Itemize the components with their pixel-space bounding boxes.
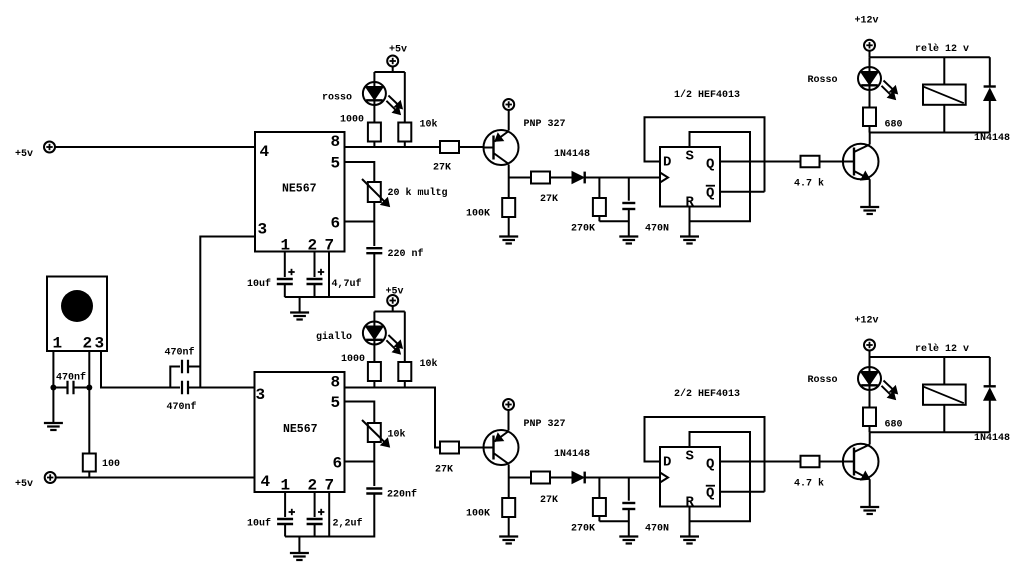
svg-text:680: 680 <box>885 420 903 431</box>
ground (microphone) <box>44 422 63 424</box>
wire +5v to PNP emitter <box>508 110 510 131</box>
wire 2,2uf to bus (bottom) <box>314 524 316 537</box>
svg-text:470nf: 470nf <box>167 401 197 413</box>
ground (top 100K) <box>499 235 518 237</box>
capacitor 470N (bottom) <box>622 478 669 535</box>
ground (top 470N) <box>619 235 638 237</box>
ground (bottom flip-flop R) <box>680 535 699 537</box>
svg-text:D: D <box>663 455 671 471</box>
svg-text:4: 4 <box>260 143 270 161</box>
svg-text:4: 4 <box>261 473 271 491</box>
resistor 1000 (bottom LED) <box>341 354 381 381</box>
wire 100K from collector node <box>508 178 510 199</box>
wire 680 to collector rail (bottom) <box>869 426 871 432</box>
wire mic pin 1 down <box>52 351 54 388</box>
IC NE567 #1 (top tone decoder) <box>255 132 345 255</box>
wire diode to flip-flop clock <box>585 177 660 179</box>
microphone capsule <box>47 277 107 353</box>
wire NE567#2 pin 7 <box>328 492 330 537</box>
wire 100K to ground (bottom) <box>508 517 510 537</box>
svg-text:4,7uf: 4,7uf <box>332 278 362 290</box>
resistor 270K (top) <box>571 178 606 235</box>
wire lower cap to NE567#2 pin 3 <box>188 387 255 389</box>
wire 27K to PNP base <box>459 146 484 148</box>
svg-text:1: 1 <box>281 477 291 495</box>
diode 1N4148 (top relay clamp) <box>974 57 1010 144</box>
wire to LED giallo anode <box>373 312 375 322</box>
svg-text:220 nf: 220 nf <box>388 248 424 260</box>
svg-text:+5v: +5v <box>389 45 407 56</box>
LED giallo (bottom) <box>363 322 403 355</box>
svg-text:Q: Q <box>706 186 714 202</box>
wire collector node to 27K <box>509 177 531 179</box>
wire ground bus (top NE567) <box>285 296 375 298</box>
ground (top NPN emitter) <box>860 206 879 208</box>
capacitor 10uf (bottom) <box>247 509 295 530</box>
wire D input loop (bottom) <box>645 417 765 492</box>
wire 1000 to pin8 line <box>373 381 375 388</box>
wire collector node to 27K (bottom) <box>509 477 531 479</box>
resistor 27K (bottom, base feed) <box>435 442 459 476</box>
wire 4.7k to NPN base <box>820 161 855 163</box>
svg-text:PNP 327: PNP 327 <box>524 119 566 130</box>
svg-text:Q: Q <box>706 486 714 502</box>
svg-text:1: 1 <box>53 335 63 353</box>
svg-text:Rosso: Rosso <box>808 75 838 86</box>
wire 10uf to bus (bottom) <box>284 524 286 537</box>
svg-text:+5v: +5v <box>15 479 33 490</box>
svg-text:7: 7 <box>325 477 335 495</box>
wire NE567#2 pin 8 <box>345 388 441 448</box>
flip-flop 1/2 HEF4013 U2 <box>660 147 720 211</box>
wire D input loop (D to Qbar) <box>645 117 765 192</box>
wire to LED rosso anode <box>373 72 375 82</box>
wire 100K from collector node (bottom) <box>508 478 510 499</box>
svg-text:2/2 HEF4013: 2/2 HEF4013 <box>674 388 740 400</box>
power +5v supply (bottom left) <box>15 472 56 490</box>
wire NE567#1 pin 2 <box>314 252 316 277</box>
wire mic pin 3 down <box>101 351 180 388</box>
svg-text:6: 6 <box>331 215 341 233</box>
svg-text:10k: 10k <box>420 358 438 370</box>
svg-text:6: 6 <box>333 455 343 473</box>
svg-text:27K: 27K <box>435 465 453 476</box>
wire mic pin 2 down <box>88 351 90 454</box>
wire 4,7uf to bus <box>314 284 316 297</box>
svg-text:rosso: rosso <box>322 93 352 104</box>
svg-text:470N: 470N <box>645 524 669 535</box>
wire +5v branch to 10k (bottom) <box>404 312 406 363</box>
svg-text:10k: 10k <box>420 119 438 131</box>
svg-text:1N4148: 1N4148 <box>554 149 590 160</box>
svg-text:2: 2 <box>308 237 318 255</box>
ground (bottom 470N) <box>619 535 638 537</box>
power +5v (bottom PNP emitter) <box>503 399 514 410</box>
svg-text:470nf: 470nf <box>165 347 195 359</box>
wire 220nf to ground bus <box>285 253 375 297</box>
svg-text:2,2uf: 2,2uf <box>333 518 363 530</box>
svg-text:5: 5 <box>331 394 341 412</box>
diode 1N4148 (bottom relay clamp) <box>974 357 1010 444</box>
wire diode to flip-flop clock (bottom) <box>585 477 660 479</box>
wire 220nf to ground bus (bottom) <box>285 494 374 537</box>
svg-text:220nf: 220nf <box>387 489 417 501</box>
wire LED to resistor 1000 <box>373 105 375 123</box>
wire +12v rail (bottom) <box>870 356 990 358</box>
capacitor 4,7uf (top) <box>307 269 362 290</box>
svg-text:100K: 100K <box>466 209 490 220</box>
svg-text:1000: 1000 <box>340 115 364 126</box>
wire rail to LED Rosso <box>869 57 871 67</box>
svg-text:1N4148: 1N4148 <box>974 133 1010 144</box>
wire 1000 to pin8 line <box>373 142 375 148</box>
svg-text:relè 12 v: relè 12 v <box>915 343 969 355</box>
wire NPN collector up (bottom) <box>869 432 871 444</box>
svg-text:27K: 27K <box>540 194 558 205</box>
resistor 27K (bottom, collector) <box>531 472 558 507</box>
wire upper cap to riser <box>188 366 200 368</box>
resistor 680 (bottom) <box>863 408 903 431</box>
wire NE567#1 pin 5 <box>345 162 375 182</box>
svg-text:D: D <box>663 155 671 171</box>
resistor 680 (top) <box>863 108 903 131</box>
wire NE567#1 pin 1 <box>284 252 286 277</box>
power +5v (top PNP emitter) <box>503 99 514 110</box>
resistor 10k (top) <box>398 119 437 142</box>
wire +5v to PNP emitter (bottom) <box>508 410 510 431</box>
wire LED to resistor 1000 <box>373 345 375 363</box>
capacitor 470nf (mic coupling) <box>56 372 86 395</box>
wire bus to ground <box>299 297 301 313</box>
wire +5v to NE567#2 pin 4 <box>56 477 255 479</box>
diode 1N4148 (bottom) <box>554 449 590 483</box>
svg-text:1000: 1000 <box>341 354 365 365</box>
resistor 100 (mic bias) <box>83 454 120 472</box>
svg-text:270K: 270K <box>571 524 595 535</box>
wire pot to pin 6 node (bottom) <box>373 442 375 486</box>
wire rail to LED Rosso (bottom) <box>869 357 871 367</box>
svg-text:2: 2 <box>83 335 93 353</box>
ground (top NE567) <box>290 311 309 313</box>
wire junction to 470nf <box>53 387 67 389</box>
svg-text:8: 8 <box>331 374 341 392</box>
capacitor 10uf (top) <box>247 269 295 290</box>
wire +12v rail (top) <box>870 56 990 58</box>
wire 470N to ground (bottom) <box>628 509 630 537</box>
svg-text:20 k multg: 20 k multg <box>388 187 448 199</box>
ground (bottom NPN emitter) <box>860 506 879 508</box>
relay coil 12v (bottom) <box>923 357 966 432</box>
ground (bottom NE567) <box>290 552 309 554</box>
svg-text:270K: 270K <box>571 224 595 235</box>
LED Rosso (top right) <box>858 67 898 100</box>
resistor 27K (top, collector) <box>531 172 558 206</box>
wire S to R tie loop <box>690 132 751 221</box>
power +5v (top LED branch) <box>387 45 407 67</box>
wire PNP collector down <box>508 165 510 178</box>
wire 27K to diode <box>550 177 572 179</box>
ground (bottom 100K) <box>499 535 518 537</box>
svg-text:giallo: giallo <box>316 331 352 343</box>
wire 100K to ground <box>508 217 510 237</box>
svg-text:Q: Q <box>706 157 714 173</box>
wire S to R tie loop (bottom) <box>690 432 751 521</box>
wire 4.7k to NPN base (bottom) <box>820 461 855 463</box>
resistor 27K (top, base feed) <box>433 141 459 174</box>
svg-text:+12v: +12v <box>855 316 879 327</box>
svg-text:470N: 470N <box>645 224 669 235</box>
svg-text:NE567: NE567 <box>283 423 318 436</box>
wire branch to upper cap <box>170 367 180 388</box>
capacitor 470N (top) <box>622 178 669 235</box>
potentiometer 20 k multg (top) <box>362 179 448 207</box>
wire +5v to NE567#1 pin 4 <box>55 146 255 148</box>
svg-text:1/2 HEF4013: 1/2 HEF4013 <box>674 89 740 101</box>
transistor PNP 327 Q3 (bottom) <box>484 430 519 465</box>
wire +5v branch to 10k <box>404 72 406 123</box>
potentiometer 10k (bottom) <box>362 420 406 447</box>
wire NE567#2 pin 6 <box>345 461 375 463</box>
resistor 4.7 k (top) <box>794 156 824 190</box>
svg-text:680: 680 <box>885 120 903 131</box>
flip-flop 2/2 HEF4013 U4 <box>660 447 720 511</box>
svg-text:PNP 327: PNP 327 <box>524 419 566 430</box>
svg-text:3: 3 <box>95 335 105 353</box>
svg-text:27K: 27K <box>540 495 558 506</box>
wire 10k to pin8 line <box>404 142 406 148</box>
ground (top flip-flop R) <box>680 235 699 237</box>
wire LED to 680 (bottom) <box>869 390 871 408</box>
wire +12v stub <box>869 51 871 57</box>
wire +5v branch split (bottom) <box>392 306 394 312</box>
transistor NPN (top relay driver) <box>843 144 879 180</box>
wire NE567#2 pin 1 <box>284 492 286 517</box>
svg-text:10uf: 10uf <box>247 518 271 530</box>
wire PNP collector down (bottom) <box>508 465 510 478</box>
svg-text:100: 100 <box>102 459 120 470</box>
svg-text:S: S <box>686 449 694 465</box>
wire NPN emitter to ground (bottom) <box>869 479 871 507</box>
svg-text:100K: 100K <box>466 509 490 520</box>
wire NPN collector up <box>869 133 871 145</box>
capacitor 470nf upper (to NE567#1) <box>165 347 195 374</box>
diode 1N4148 (top) <box>554 149 590 183</box>
svg-text:+5v: +5v <box>15 149 33 160</box>
svg-text:relè 12 v: relè 12 v <box>915 43 969 55</box>
wire 27K to diode (bottom) <box>550 477 572 479</box>
wire mic pin1 node to ground <box>52 388 54 423</box>
svg-text:27K: 27K <box>433 163 451 174</box>
wire +5v branch split <box>392 67 394 73</box>
capacitor 220nf (bottom) <box>366 489 417 501</box>
power +5v (bottom LED branch) <box>386 287 404 307</box>
svg-text:1N4148: 1N4148 <box>974 433 1010 444</box>
wire NE567#2 pin 2 <box>314 492 316 517</box>
wire ground bus (bottom NE567) <box>285 536 374 538</box>
svg-text:+12v: +12v <box>855 16 879 27</box>
wire pot to pin 6 node <box>373 202 375 246</box>
svg-text:1N4148: 1N4148 <box>554 449 590 460</box>
relay coil 12v (top) <box>923 57 966 132</box>
wire 270K to ground node <box>598 216 600 221</box>
wire NE567#1 pin 3 <box>200 237 255 388</box>
LED Rosso (bottom right) <box>858 367 898 400</box>
resistor 100K (bottom) <box>466 498 515 520</box>
wire collector rail (bottom) <box>870 431 990 433</box>
wire NE567#1 pin 6 <box>345 221 375 223</box>
power +12v (bottom) <box>855 316 879 351</box>
wire 10uf to bus <box>284 284 286 297</box>
svg-text:4.7 k: 4.7 k <box>794 478 824 490</box>
node mic pin1 junction <box>50 385 56 391</box>
svg-text:4.7 k: 4.7 k <box>794 178 824 190</box>
wire Qbar output <box>720 191 765 193</box>
wire NE567#2 pin 5 <box>345 402 375 424</box>
node mic pin2 junction <box>86 385 92 391</box>
wire +12v stub (bottom) <box>869 351 871 358</box>
power +12v (top) <box>855 16 879 51</box>
wire LED to 680 <box>869 90 871 108</box>
wire Q output to 4.7k <box>720 161 801 163</box>
transistor NPN (bottom relay driver) <box>843 444 879 480</box>
wire bus to ground (bottom) <box>298 537 300 553</box>
svg-text:S: S <box>686 149 694 165</box>
power +5v supply (top left) <box>15 142 55 161</box>
wire 27K to PNP base <box>459 447 484 449</box>
svg-text:5: 5 <box>331 155 341 173</box>
IC NE567 #2 (bottom tone decoder) <box>255 372 345 495</box>
capacitor 470nf lower (signal path) <box>167 381 197 413</box>
wire R to ground (bottom) <box>689 507 691 537</box>
svg-text:10uf: 10uf <box>247 278 271 290</box>
wire 470N to ground <box>628 209 630 237</box>
LED rosso (top) <box>363 82 403 115</box>
wire Qbar output (bottom) <box>720 491 765 493</box>
wire 470nf to pin2 node <box>74 387 90 389</box>
resistor 270K (bottom) <box>571 478 606 535</box>
svg-text:Q: Q <box>706 457 714 473</box>
capacitor 220 nf (top) <box>366 248 423 260</box>
wire 680 to collector rail <box>869 126 871 133</box>
svg-text:3: 3 <box>258 221 268 239</box>
wire 100 to +5v line <box>88 472 90 478</box>
capacitor 2,2uf (bottom) <box>307 509 363 530</box>
wire R to ground <box>689 207 691 237</box>
resistor 10k (bottom) <box>398 358 437 381</box>
wire Q output to 4.7k (bottom) <box>720 461 801 463</box>
resistor 100K (top) <box>466 198 515 220</box>
wire 10k to pin8 line (bottom) <box>404 381 406 388</box>
wire NE567#1 pin 7 <box>328 252 330 297</box>
resistor 4.7 k (bottom) <box>794 456 824 490</box>
wire NPN emitter to ground <box>869 179 871 207</box>
wire 270K to ground node (bottom) <box>598 516 600 521</box>
svg-text:8: 8 <box>331 133 341 151</box>
svg-text:10k: 10k <box>388 429 406 441</box>
transistor PNP 327 Q1 (top) <box>484 130 519 165</box>
svg-text:Rosso: Rosso <box>808 375 838 386</box>
wire NE567#1 pin 8 to 27K <box>345 146 441 148</box>
svg-text:NE567: NE567 <box>282 183 317 196</box>
wire collector rail (top) <box>870 132 990 134</box>
resistor 1000 (top LED) <box>340 115 381 142</box>
svg-text:2: 2 <box>308 477 318 495</box>
svg-text:470nf: 470nf <box>56 372 86 384</box>
svg-text:3: 3 <box>256 386 266 404</box>
